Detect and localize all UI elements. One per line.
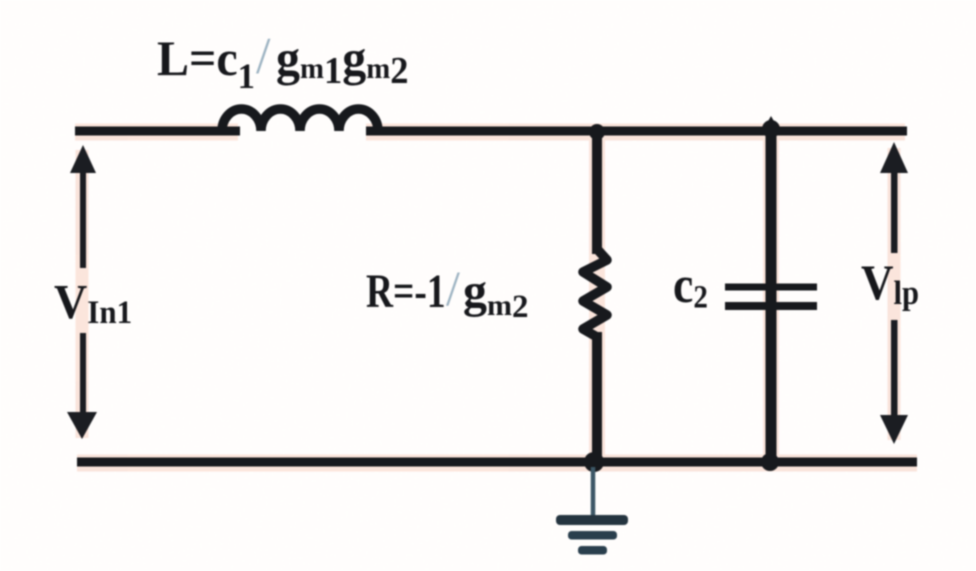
wire bottom rail [77, 458, 917, 467]
wire top rail right segment [366, 127, 907, 136]
junction: resistor bottom / ground node [584, 452, 604, 472]
capacitor C2 top plate [725, 284, 817, 291]
arrow Vlp down [880, 320, 908, 444]
halo glow under wires [75, 131, 917, 463]
arrow Vin1 down [67, 333, 97, 439]
capacitor C2 bottom plate [725, 302, 817, 310]
junction: resistor top node [589, 124, 605, 140]
svg-text:/: / [256, 28, 271, 85]
label R value: R=-1/gm2 [366, 266, 446, 318]
node Vin1 label [54, 276, 132, 330]
node Vlp label [861, 256, 919, 311]
wire resistor branch lower [592, 332, 602, 466]
label L value: L=c1/gm1gm2 [157, 30, 255, 96]
ground [556, 467, 628, 555]
inductor L [222, 109, 378, 131]
arrow Vlp up [880, 142, 908, 253]
junction: capacitor top node [762, 120, 780, 138]
arrow Vin1 up [70, 145, 96, 268]
junction: capacitor bottom node [761, 453, 779, 471]
wire capacitor branch [766, 127, 777, 466]
wire resistor branch upper [592, 127, 602, 254]
wire top rail left segment [75, 127, 240, 136]
svg-text:R=-1: R=-1 [366, 266, 446, 318]
svg-text:/: / [446, 260, 460, 316]
resistor R [583, 249, 607, 337]
label C2 value: c2 [673, 255, 708, 315]
